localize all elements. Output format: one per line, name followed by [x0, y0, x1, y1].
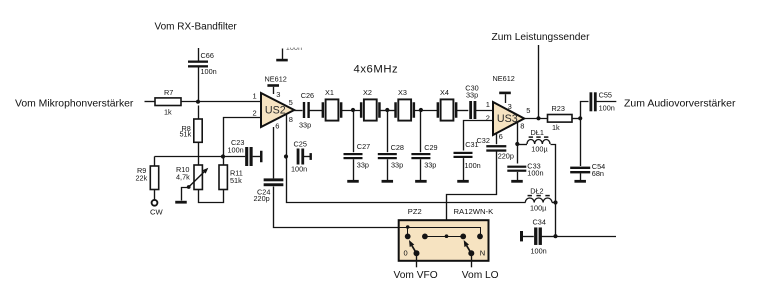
wire R23 to node B — [572, 118, 580, 120]
resistor R23 — [548, 115, 573, 123]
wire wiper to ground — [182, 188, 189, 201]
svg-text:US3: US3 — [497, 113, 518, 125]
crystal X4 — [437, 102, 440, 118]
wire X4 to C30 — [457, 110, 469, 112]
relay right pole — [468, 250, 474, 256]
node R10 wiper dot — [187, 185, 191, 189]
svg-text:5: 5 — [289, 98, 293, 107]
svg-text:6: 6 — [499, 132, 503, 141]
wire rail down to R9 — [154, 157, 156, 167]
wire C29 drop — [420, 110, 422, 152]
trimmer R10 wiper arrow — [189, 170, 206, 187]
wire RX-Bandfilter drop to C66 — [198, 48, 200, 61]
wire to C34 — [523, 236, 534, 238]
wire bias rail y156 — [155, 156, 246, 158]
svg-text:2: 2 — [486, 114, 490, 123]
wire node B down to C54 — [580, 118, 582, 166]
wire X3 to X4 — [414, 110, 437, 112]
terminal CW circle — [152, 200, 158, 206]
wire C66 to node R7 — [198, 67, 200, 102]
node relay feed left — [406, 225, 410, 229]
capacitor C27 — [344, 153, 363, 155]
svg-text:100n: 100n — [527, 169, 543, 178]
svg-text:CW: CW — [150, 208, 163, 217]
node X3/C29 — [419, 108, 423, 112]
wire US2 pin 6 down — [273, 127, 275, 178]
capacitor C25 — [297, 149, 300, 165]
svg-text:Vom Mikrophonverstärker: Vom Mikrophonverstärker — [15, 98, 134, 109]
crystal X2 — [360, 102, 363, 118]
capacitor C66 — [188, 61, 208, 63]
capacitor C26 — [303, 102, 305, 118]
wire drop to left throw — [407, 227, 409, 236]
wire R9 to CW terminal — [154, 190, 156, 201]
wire Leistungssender drop — [538, 45, 540, 118]
node pin8/C25 junction — [284, 154, 288, 158]
capacitor C55 — [590, 92, 593, 111]
ground C25 end bar — [310, 153, 312, 160]
wire R11 top to rail — [223, 157, 225, 166]
ground R10 wiper — [175, 201, 187, 204]
svg-text:8: 8 — [289, 115, 293, 124]
wire US3 pin 8 down — [517, 122, 519, 145]
wire C23 to end bar — [253, 156, 260, 158]
op-amp mixer US3 NE612 — [493, 102, 524, 135]
svg-text:NE612: NE612 — [265, 75, 287, 84]
capacitor C33 — [507, 166, 526, 168]
wire right pole down — [471, 253, 473, 267]
svg-text:100n: 100n — [201, 67, 217, 76]
wire C30 to US3 pin 1 — [475, 110, 493, 112]
svg-text:Vom RX-Bandfilter: Vom RX-Bandfilter — [155, 22, 238, 33]
svg-text:2: 2 — [253, 109, 257, 118]
contact left common — [422, 234, 428, 240]
svg-text:33p: 33p — [424, 161, 436, 170]
ground C23 end bar — [260, 151, 263, 163]
supply bar US3 pin 3 — [499, 92, 511, 95]
capacitor C23 — [245, 147, 248, 166]
svg-text:5: 5 — [526, 106, 530, 115]
capacitor C34 end bar — [520, 231, 523, 241]
svg-text:X1: X1 — [325, 88, 334, 97]
ground C31 — [457, 180, 469, 183]
svg-text:C29: C29 — [424, 143, 437, 152]
capacitor C28 — [378, 153, 397, 155]
svg-text:C26: C26 — [301, 91, 314, 100]
capacitor C32 — [486, 145, 506, 147]
ground C33 — [511, 180, 523, 183]
svg-text:X4: X4 — [440, 88, 449, 97]
svg-text:100n: 100n — [465, 161, 481, 170]
wire US2 pin 8 down — [286, 114, 288, 157]
capacitor C30 — [469, 101, 472, 119]
node R7/C66/R8 junction — [196, 100, 200, 104]
wire node B up to C55 — [581, 102, 589, 119]
svg-text:8: 8 — [520, 121, 524, 130]
ground C27 — [347, 180, 359, 183]
node pin8/DL1/C33 — [515, 142, 519, 146]
svg-text:C27: C27 — [357, 142, 370, 151]
resistor R7 — [155, 98, 181, 106]
svg-text:220p: 220p — [498, 151, 514, 160]
wire C26 to X1 — [309, 110, 322, 112]
svg-text:DŁ1: DŁ1 — [531, 128, 544, 137]
wire C33 drop — [517, 144, 519, 164]
relay PZ2 body RA12WN-K — [399, 220, 489, 261]
wire carrier rail to DL2 — [287, 157, 526, 203]
svg-text:NE612: NE612 — [493, 74, 515, 83]
capacitor C29 — [411, 153, 430, 155]
svg-text:N: N — [480, 249, 485, 258]
node DL2 right junction — [553, 200, 557, 204]
node X1/C27 — [351, 108, 355, 112]
inductor DL2 — [525, 198, 552, 203]
svg-text:100n: 100n — [228, 145, 244, 154]
svg-text:Zum Leistungssender: Zum Leistungssender — [492, 32, 591, 43]
wire R10/R11 bottoms — [199, 190, 224, 203]
ground C28 — [382, 180, 394, 183]
wire R8 to R10 (crosses bias rail) — [198, 142, 200, 165]
node R23/C55/C54 junction — [578, 116, 582, 120]
contact right common — [460, 234, 466, 240]
svg-text:DŁ2: DŁ2 — [530, 187, 543, 196]
capacitor C24 — [264, 178, 284, 181]
wire X2 to X3 — [380, 110, 395, 112]
svg-text:100n: 100n — [599, 103, 615, 112]
wire US3 pin 2 to C31 — [464, 121, 494, 151]
op-amp mixer US2 NE612 — [261, 93, 294, 127]
crystal X3 — [394, 102, 397, 118]
wire C55 to audio label — [596, 101, 616, 103]
wire C28 drop — [387, 110, 389, 152]
svg-text:33p: 33p — [391, 161, 403, 170]
svg-text:RA12WN-K: RA12WN-K — [454, 207, 495, 216]
wire DL1 right end down — [551, 145, 556, 237]
svg-text:US2: US2 — [265, 104, 286, 116]
resistor R11 — [219, 165, 227, 190]
crystal X1 — [322, 102, 325, 118]
capacitor C34 — [534, 227, 537, 245]
wire US2 pin 5 to C26 — [294, 110, 302, 112]
svg-text:51k: 51k — [230, 176, 242, 185]
svg-text:Vom VFO: Vom VFO — [394, 270, 438, 281]
ground clipped fragment — [282, 49, 284, 60]
svg-text:PZ2: PZ2 — [408, 207, 422, 216]
svg-text:33p: 33p — [357, 161, 369, 170]
svg-text:4,7k: 4,7k — [176, 173, 190, 182]
svg-text:1: 1 — [486, 100, 490, 109]
svg-text:3: 3 — [508, 102, 512, 111]
node R11 top junction — [221, 154, 225, 158]
wire US3 pin 6 down — [496, 133, 498, 144]
capacitor C54 — [570, 167, 590, 169]
contact right throw — [477, 234, 483, 240]
svg-text:R23: R23 — [552, 104, 565, 113]
svg-text:C28: C28 — [391, 143, 404, 152]
ground C54 — [574, 180, 586, 183]
node X2/C28 — [385, 108, 389, 112]
svg-text:4x6MHz: 4x6MHz — [354, 63, 399, 75]
svg-text:Zum Audiovorverstärker: Zum Audiovorverstärker — [624, 98, 736, 110]
wire US2 pin 2 from bias node — [224, 118, 262, 157]
svg-text:C66: C66 — [201, 51, 214, 60]
svg-text:0: 0 — [404, 249, 408, 258]
svg-text:33p: 33p — [299, 121, 311, 130]
svg-text:C55: C55 — [599, 91, 612, 100]
resistor R8 — [198, 106, 200, 120]
node relay center junction — [445, 234, 449, 238]
wire X1 to X2 — [342, 110, 361, 112]
svg-text:X2: X2 — [363, 88, 372, 97]
svg-text:6: 6 — [275, 122, 279, 131]
trimmer R10 — [194, 165, 202, 190]
svg-text:X3: X3 — [398, 88, 407, 97]
wire US3 pin 5 output — [524, 118, 547, 120]
svg-text:68n: 68n — [592, 169, 604, 178]
wire C25 to end bar — [303, 156, 309, 158]
node output/TX junction — [536, 116, 540, 120]
relay left pole — [414, 250, 420, 256]
svg-text:C25: C25 — [294, 140, 307, 149]
wire node to right end — [556, 236, 617, 238]
svg-text:100n: 100n — [531, 247, 547, 256]
svg-text:51k: 51k — [180, 130, 192, 139]
svg-text:22k: 22k — [136, 174, 148, 183]
svg-text:100n: 100n — [291, 165, 307, 174]
relay common wire — [425, 236, 463, 238]
svg-text:1: 1 — [253, 92, 257, 101]
clipped text fragment 100n — [286, 43, 302, 52]
wire C27 drop — [353, 110, 355, 152]
capacitor C31 — [454, 152, 473, 154]
wire left pole down — [416, 253, 418, 267]
ground C29 — [415, 180, 427, 183]
svg-text:C34: C34 — [533, 218, 546, 227]
node C34/DL-rail junction — [553, 234, 557, 238]
contact left throw — [405, 234, 411, 240]
supply bar US2 pin 3 — [267, 84, 279, 87]
svg-text:R7: R7 — [164, 88, 173, 97]
wire DL2 right lead — [552, 202, 556, 204]
inductor DL1 — [527, 139, 550, 144]
svg-text:33p: 33p — [466, 91, 478, 100]
resistor R9 — [150, 166, 158, 190]
wire drop to right throw — [480, 227, 482, 236]
svg-text:Vom LO: Vom LO — [462, 270, 499, 281]
relay top feed wire — [399, 227, 480, 229]
svg-text:100µ: 100µ — [530, 204, 547, 213]
wire DL1 lead — [517, 144, 527, 146]
svg-text:100µ: 100µ — [531, 145, 548, 154]
svg-text:220p: 220p — [254, 194, 270, 203]
wire R7 to US2 pin 1 — [181, 101, 261, 103]
wire mic input — [145, 101, 156, 103]
wire C24 down to relay feed — [274, 187, 481, 228]
wire C32 down-left-down into relay — [447, 152, 497, 237]
wire C34 to node — [541, 236, 556, 238]
svg-text:3: 3 — [276, 90, 280, 99]
svg-text:1k: 1k — [164, 108, 172, 117]
svg-text:1k: 1k — [552, 123, 560, 132]
svg-text:C32: C32 — [477, 136, 490, 145]
